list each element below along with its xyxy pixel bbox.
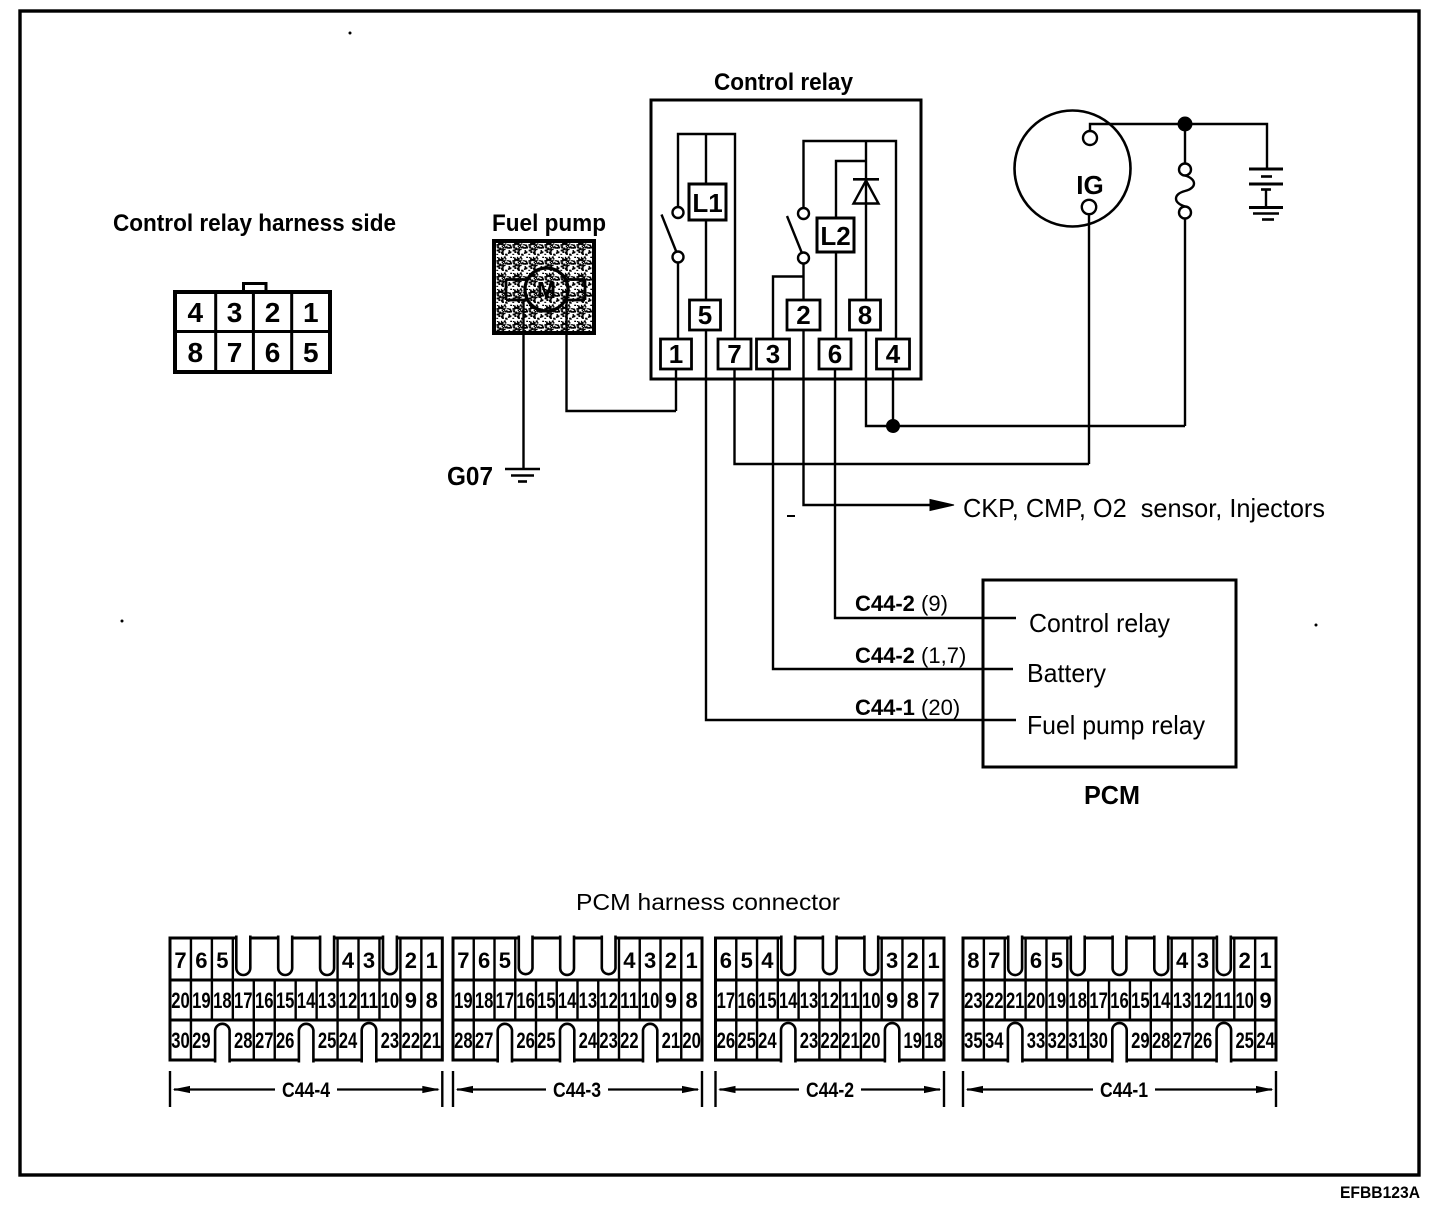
wire: pin 1 to fuel pump (675, 369, 677, 411)
svg-text:4: 4 (342, 948, 355, 973)
wire: IG top to junction (1090, 124, 1185, 131)
svg-text:11: 11 (1215, 988, 1234, 1013)
junction node (887, 420, 900, 433)
svg-text:9: 9 (405, 988, 417, 1013)
speck (349, 32, 352, 35)
battery B1 with ground (1249, 169, 1283, 220)
svg-text:27: 27 (255, 1028, 274, 1053)
svg-text:15: 15 (537, 988, 556, 1013)
svg-text:11: 11 (360, 988, 379, 1013)
arrowhead (930, 500, 954, 511)
svg-text:14: 14 (779, 988, 798, 1013)
svg-text:15: 15 (758, 988, 777, 1013)
svg-text:Battery: Battery (1027, 658, 1106, 688)
svg-text:16: 16 (737, 988, 756, 1013)
dimension C44-4 (170, 1071, 442, 1107)
svg-text:25: 25 (537, 1028, 556, 1053)
svg-text:27: 27 (475, 1028, 494, 1053)
svg-text:22: 22 (402, 1028, 421, 1053)
svg-text:IG: IG (1076, 170, 1103, 200)
svg-text:3: 3 (1197, 948, 1209, 973)
wire: diode feed (865, 141, 867, 179)
pin box 1 (661, 339, 692, 369)
svg-text:5: 5 (499, 948, 511, 973)
terminal 5 (690, 300, 721, 330)
svg-text:C44-2 (1,7): C44-2 (1,7) (855, 643, 966, 668)
svg-text:6: 6 (1030, 948, 1042, 973)
svg-text:26: 26 (1194, 1028, 1213, 1053)
svg-text:4: 4 (1176, 948, 1189, 973)
connector: control relay harness side 8-pin (175, 292, 330, 372)
wire: L1 feed (705, 134, 707, 184)
svg-text:2: 2 (665, 948, 677, 973)
svg-text:1: 1 (669, 339, 683, 369)
svg-text:4: 4 (188, 297, 204, 328)
svg-text:1: 1 (685, 948, 697, 973)
svg-text:7: 7 (227, 337, 243, 368)
wire: terminal 8 to battery feed (866, 330, 1185, 426)
svg-text:28: 28 (234, 1028, 253, 1053)
svg-text:17: 17 (234, 988, 253, 1013)
terminal 2 (787, 300, 820, 330)
svg-text:Control relay: Control relay (714, 69, 854, 96)
svg-text:18: 18 (475, 988, 494, 1013)
svg-text:1: 1 (426, 948, 438, 973)
wire: pin 3 to PCM battery (C44-2 1,7) (773, 369, 1013, 669)
svg-text:2: 2 (796, 300, 810, 330)
svg-text:24: 24 (579, 1028, 598, 1053)
connector tab (244, 284, 267, 293)
fuel pump body (494, 241, 594, 333)
motor M1 terminals (506, 280, 585, 301)
svg-text:27: 27 (1173, 1028, 1192, 1053)
svg-text:6: 6 (828, 339, 842, 369)
connector C44-2 (716, 936, 945, 1063)
svg-text:11: 11 (841, 988, 860, 1013)
svg-text:19: 19 (904, 1028, 923, 1053)
svg-text:7: 7 (457, 948, 469, 973)
svg-text:Control relay harness side: Control relay harness side (113, 210, 396, 237)
svg-text:14: 14 (1152, 988, 1171, 1013)
svg-text:20: 20 (1027, 988, 1046, 1013)
svg-text:14: 14 (297, 988, 316, 1013)
wire: S1 to pin 1 (677, 263, 679, 340)
svg-text:2: 2 (1239, 948, 1251, 973)
svg-text:8: 8 (858, 300, 872, 330)
svg-text:26: 26 (276, 1028, 295, 1053)
svg-text:16: 16 (1110, 988, 1129, 1013)
wire: relay right branch top (804, 141, 897, 339)
svg-text:G07: G07 (447, 461, 493, 491)
wire: L2 to pin 6 (835, 252, 837, 339)
relay switch S1 (662, 207, 684, 263)
svg-text:3: 3 (886, 948, 898, 973)
svg-text:29: 29 (192, 1028, 211, 1053)
svg-text:30: 30 (1089, 1028, 1108, 1053)
svg-text:3: 3 (227, 297, 243, 328)
wire: L1 to terminal 5 (705, 220, 707, 300)
dimension C44-1 (963, 1071, 1276, 1107)
svg-text:M: M (537, 277, 556, 303)
connector C44-3 (453, 936, 702, 1063)
svg-text:5: 5 (698, 300, 712, 330)
svg-text:19: 19 (192, 988, 211, 1013)
svg-text:15: 15 (276, 988, 295, 1013)
wire: fuse to relay terminal 8 line (1184, 219, 1186, 427)
svg-text:L2: L2 (820, 221, 850, 251)
svg-text:C44-2: C44-2 (806, 1079, 854, 1102)
svg-text:12: 12 (821, 988, 840, 1013)
connector C44-4 (170, 936, 442, 1063)
svg-text:12: 12 (599, 988, 618, 1013)
svg-text:32: 32 (1048, 1028, 1067, 1053)
svg-text:7: 7 (988, 948, 1000, 973)
svg-text:22: 22 (821, 1028, 840, 1053)
ignition switch IG (1015, 111, 1131, 227)
svg-text:18: 18 (924, 1028, 943, 1053)
svg-text:35: 35 (964, 1028, 983, 1053)
svg-text:6: 6 (265, 337, 281, 368)
terminal 8 (850, 300, 881, 330)
wire: terminal 2 to CKP CMP O2 injectors (804, 330, 933, 505)
svg-text:4: 4 (886, 339, 901, 369)
svg-text:23: 23 (964, 988, 983, 1013)
svg-text:20: 20 (682, 1028, 701, 1053)
svg-text:20: 20 (862, 1028, 881, 1053)
svg-text:29: 29 (1131, 1028, 1150, 1053)
svg-text:4: 4 (761, 948, 774, 973)
IG terminal bottom (1082, 200, 1096, 214)
pin box 7 (718, 339, 751, 369)
svg-text:PCM harness connector: PCM harness connector (576, 889, 840, 915)
svg-text:9: 9 (886, 988, 898, 1013)
svg-text:22: 22 (620, 1028, 639, 1053)
motor M1 (525, 268, 568, 311)
dimension C44-3 (453, 1071, 702, 1107)
svg-text:16: 16 (255, 988, 274, 1013)
PCM box (983, 580, 1236, 767)
wire: junction to battery (1185, 124, 1267, 169)
svg-text:10: 10 (641, 988, 660, 1013)
speck (121, 620, 124, 623)
svg-text:3: 3 (363, 948, 375, 973)
svg-text:14: 14 (558, 988, 577, 1013)
relay switch S2 (787, 208, 809, 264)
wire: relay left branch top (678, 134, 735, 339)
svg-text:22: 22 (985, 988, 1004, 1013)
diode D1 (853, 179, 879, 300)
svg-text:8: 8 (426, 988, 438, 1013)
svg-text:9: 9 (1259, 988, 1271, 1013)
svg-text:11: 11 (620, 988, 639, 1013)
svg-text:6: 6 (478, 948, 490, 973)
wire: fuel pump right lead (567, 300, 677, 411)
svg-text:24: 24 (339, 1028, 358, 1053)
wire: terminal 5 to PCM fuel pump relay (C44-1 20) (706, 330, 1016, 720)
svg-text:4: 4 (623, 948, 636, 973)
svg-text:26: 26 (717, 1028, 736, 1053)
svg-text:15: 15 (1131, 988, 1150, 1013)
svg-text:7: 7 (174, 948, 186, 973)
svg-text:9: 9 (665, 988, 677, 1013)
svg-text:2: 2 (265, 297, 281, 328)
svg-text:24: 24 (1256, 1028, 1275, 1053)
svg-text:23: 23 (800, 1028, 819, 1053)
svg-text:5: 5 (1051, 948, 1063, 973)
wire: pin 6 to PCM control relay (C44-2 9) (835, 369, 1016, 618)
svg-text:1: 1 (303, 297, 319, 328)
svg-text:C44-1: C44-1 (1100, 1079, 1148, 1102)
svg-text:28: 28 (1152, 1028, 1171, 1053)
svg-text:5: 5 (303, 337, 319, 368)
svg-text:C44-3: C44-3 (553, 1079, 601, 1102)
wire: S2 to terminal 2 and pin 3 (773, 264, 804, 340)
svg-text:23: 23 (599, 1028, 618, 1053)
svg-text:EFBB123A: EFBB123A (1340, 1183, 1420, 1202)
svg-text:25: 25 (1235, 1028, 1254, 1053)
svg-text:28: 28 (454, 1028, 473, 1053)
svg-text:21: 21 (423, 1028, 442, 1053)
svg-text:6: 6 (720, 948, 732, 973)
svg-text:30: 30 (171, 1028, 190, 1053)
svg-text:26: 26 (516, 1028, 535, 1053)
svg-text:13: 13 (1173, 988, 1192, 1013)
svg-text:18: 18 (1069, 988, 1088, 1013)
svg-text:Control relay: Control relay (1029, 608, 1170, 638)
svg-text:13: 13 (800, 988, 819, 1013)
connector C44-1 (963, 936, 1276, 1063)
svg-text:PCM: PCM (1084, 780, 1140, 810)
svg-text:Fuel pump relay: Fuel pump relay (1027, 710, 1205, 740)
svg-text:31: 31 (1069, 1028, 1088, 1053)
svg-text:8: 8 (188, 337, 204, 368)
svg-text:24: 24 (758, 1028, 777, 1053)
svg-text:19: 19 (1048, 988, 1067, 1013)
svg-text:18: 18 (213, 988, 232, 1013)
svg-text:C44-2 (9): C44-2 (9) (855, 591, 948, 616)
junction node B+ (1178, 117, 1192, 131)
speck (787, 515, 795, 517)
wire: fuel pump left lead to ground (522, 300, 524, 468)
svg-text:C44-1 (20): C44-1 (20) (855, 695, 960, 720)
pin box 4 (877, 339, 910, 369)
svg-text:12: 12 (339, 988, 358, 1013)
svg-text:25: 25 (737, 1028, 756, 1053)
svg-text:8: 8 (685, 988, 697, 1013)
svg-text:CKP, CMP, O2 sensor, Injector: CKP, CMP, O2 sensor, Injectors (963, 493, 1325, 523)
svg-text:1: 1 (927, 948, 939, 973)
fuse F1 (1176, 131, 1194, 219)
svg-text:23: 23 (381, 1028, 400, 1053)
ground G07 symbol (505, 469, 540, 482)
svg-text:21: 21 (841, 1028, 860, 1053)
svg-text:3: 3 (766, 339, 780, 369)
svg-text:8: 8 (907, 988, 919, 1013)
speck (1315, 624, 1318, 627)
control relay box (651, 100, 921, 379)
svg-text:5: 5 (741, 948, 753, 973)
svg-text:7: 7 (927, 988, 939, 1013)
svg-text:13: 13 (579, 988, 598, 1013)
svg-text:34: 34 (985, 1028, 1004, 1053)
pin box 6 (819, 339, 851, 369)
svg-text:C44-4: C44-4 (282, 1079, 330, 1102)
svg-text:7: 7 (727, 339, 741, 369)
IG terminal top (1083, 131, 1097, 145)
svg-text:19: 19 (454, 988, 473, 1013)
svg-text:6: 6 (195, 948, 207, 973)
svg-text:17: 17 (717, 988, 736, 1013)
wire: pin 7 to ignition switch (735, 369, 1090, 464)
wire: IG bottom down (1088, 214, 1090, 464)
wire: L2 feed (836, 161, 866, 218)
svg-text:13: 13 (318, 988, 337, 1013)
svg-text:L1: L1 (692, 188, 722, 218)
svg-text:33: 33 (1027, 1028, 1046, 1053)
svg-text:10: 10 (1235, 988, 1254, 1013)
svg-text:2: 2 (907, 948, 919, 973)
relay coil L1 (689, 184, 726, 220)
svg-text:10: 10 (381, 988, 400, 1013)
wire: pin 4 (892, 369, 894, 426)
svg-text:8: 8 (967, 948, 979, 973)
svg-text:10: 10 (862, 988, 881, 1013)
pin box 3 (757, 339, 790, 369)
svg-text:17: 17 (1089, 988, 1108, 1013)
relay coil L2 (817, 218, 854, 252)
svg-text:21: 21 (1006, 988, 1025, 1013)
svg-text:25: 25 (318, 1028, 337, 1053)
svg-text:21: 21 (662, 1028, 681, 1053)
svg-text:17: 17 (496, 988, 515, 1013)
svg-text:16: 16 (516, 988, 535, 1013)
svg-text:3: 3 (644, 948, 656, 973)
svg-text:5: 5 (216, 948, 228, 973)
svg-text:1: 1 (1259, 948, 1271, 973)
svg-text:2: 2 (405, 948, 417, 973)
svg-text:Fuel pump: Fuel pump (492, 210, 606, 237)
dimension C44-2 (716, 1071, 945, 1107)
svg-text:12: 12 (1194, 988, 1213, 1013)
svg-text:20: 20 (171, 988, 190, 1013)
